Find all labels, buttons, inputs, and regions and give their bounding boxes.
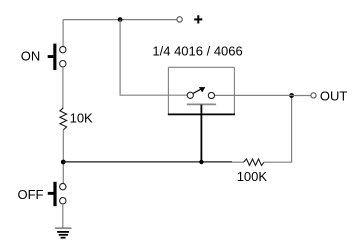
ground xyxy=(55,228,72,238)
+ label xyxy=(194,15,202,23)
label ON xyxy=(21,49,41,64)
wire left vertical from top wire to ON switch xyxy=(62,20,64,47)
resistor 100K (horizontal zigzag) xyxy=(244,159,265,165)
switch gate bar xyxy=(187,103,216,105)
svg-text:1/4 4016 / 4066: 1/4 4016 / 4066 xyxy=(152,44,242,59)
wire control line from gate to bottom wire xyxy=(200,105,202,163)
wire 100K up to OUT node xyxy=(264,96,291,163)
wire OFF switch to ground xyxy=(62,204,64,228)
wire ON switch to resistor R 10K xyxy=(62,67,64,108)
node + supply terminal xyxy=(177,17,182,22)
junction top (supply to switch input branch) xyxy=(118,17,123,22)
wire box left pin to switch contact xyxy=(168,94,187,96)
wire switch contact to box right pin and to OUT node xyxy=(215,94,292,96)
label OFF xyxy=(18,187,44,202)
wire branch vertical then horizontal into box left pin xyxy=(120,20,168,96)
svg-text:ON: ON xyxy=(21,49,41,64)
analog switch contacts U1 xyxy=(187,92,214,98)
value label 10K xyxy=(70,111,93,126)
svg-text:OFF: OFF xyxy=(18,187,44,202)
junction bottom left xyxy=(61,160,66,165)
junction OUT node xyxy=(289,93,294,98)
pushbutton OFF xyxy=(48,182,66,206)
svg-text:100K: 100K xyxy=(237,169,268,184)
switch wiper arrow xyxy=(193,87,205,93)
wire OUT node to OUT terminal xyxy=(292,95,311,97)
junction control line to bottom wire xyxy=(199,160,203,164)
wire top horizontal from left branch to + terminal xyxy=(63,19,177,21)
label 1/4 4016 / 4066 xyxy=(152,44,242,59)
analog switch U1 box xyxy=(168,67,235,114)
value label 100K xyxy=(237,169,268,184)
wire resistor to bottom junction and on to OFF switch xyxy=(62,130,64,184)
wire bottom horizontal to 100K resistor xyxy=(232,161,243,163)
node OUT terminal xyxy=(311,93,316,98)
svg-text:OUT: OUT xyxy=(320,89,348,104)
label OUT xyxy=(320,89,348,104)
wire bottom horizontal (dark segment) xyxy=(63,161,232,163)
pushbutton ON xyxy=(48,44,66,70)
resistor 10K (vertical zigzag) xyxy=(60,108,67,130)
svg-text:10K: 10K xyxy=(70,111,93,126)
